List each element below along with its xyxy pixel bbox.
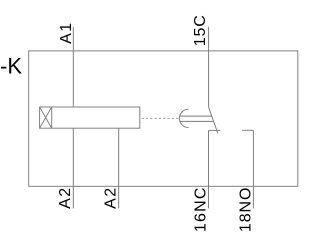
- wire 15C lead: [208, 27, 210, 107]
- wire A2 lead left: [72, 128, 74, 208]
- svg-text:A2: A2: [57, 186, 74, 209]
- wire 18NO lead: [252, 130, 254, 208]
- off-delay semicircle: [179, 109, 188, 127]
- coil X cell divider: [51, 107, 53, 128]
- coil X diagonal 2: [40, 107, 52, 128]
- moving contact blade: [209, 107, 218, 133]
- svg-text:A1: A1: [58, 21, 75, 44]
- fixed contact 16NC bar: [209, 129, 221, 131]
- wire A1 lead: [72, 27, 74, 107]
- svg-text:-K: -K: [0, 54, 22, 79]
- svg-text:16NC: 16NC: [193, 186, 210, 232]
- off-delay lower bar: [180, 120, 214, 122]
- coil K (box): [40, 107, 140, 128]
- off-delay upper bar: [180, 115, 212, 117]
- mechanical link (dashed): [142, 117, 179, 119]
- svg-text:A2: A2: [102, 186, 119, 209]
- fixed contact 18NO bar: [242, 129, 253, 131]
- wire 16NC lead: [208, 130, 210, 208]
- svg-text:18NO: 18NO: [238, 187, 255, 232]
- coil X diagonal 1: [40, 107, 52, 128]
- svg-text:15C: 15C: [192, 14, 209, 46]
- wire A2 lead right: [118, 128, 120, 208]
